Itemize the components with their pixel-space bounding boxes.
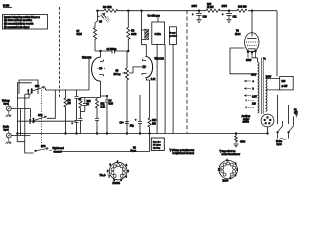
mains double-pole switch (278, 124, 283, 135)
svg-text:ECC83: ECC83 (113, 183, 121, 185)
svg-text:Right-hand: Right-hand (53, 147, 65, 150)
svg-text:Radio: Radio (3, 127, 10, 129)
svg-text:(b) monaural pick-up records: (b) monaural pick-up records (4, 23, 34, 26)
voltage selector disc (261, 114, 274, 127)
grid return loop of V2 (230, 48, 256, 74)
screening dash-dot line (input section) (59, 7, 61, 97)
svg-text:input: input (4, 103, 9, 106)
wire jack1 to switch (11, 108, 30, 110)
coupling caps C7a C7b to earth (64, 90, 67, 134)
svg-text:speaker: speaker (169, 35, 177, 38)
svg-text:SA3: SA3 (41, 145, 46, 148)
ground at jack 1 (6, 111, 12, 117)
svg-text:6.3V: 6.3V (252, 96, 257, 98)
switch linkage dotted line (41, 90, 43, 148)
anode resistor R8 (vertical zigzag) (127, 11, 130, 51)
svg-text:input: input (4, 129, 9, 132)
wire: switch to grid column (46, 57, 90, 90)
grid-leak resistor R7 (vertical zigzag) (93, 16, 97, 41)
svg-text:4700: 4700 (240, 142, 246, 144)
wire: V1b anode up to output transformer (142, 45, 147, 57)
svg-text:R10: R10 (87, 101, 92, 103)
svg-text:in right-hand channel: in right-hand channel (173, 152, 195, 155)
svg-text:(c) monaural radio signal: (c) monaural radio signal (4, 26, 30, 29)
svg-text:R13: R13 (152, 120, 157, 122)
heater tap arrows on T2 (245, 80, 252, 97)
svg-text:Inputs balancing switch SA pos: Inputs balancing switch SA pos.: (4, 16, 40, 19)
svg-text:SA1: SA1 (35, 85, 40, 88)
electrolytic C9 on pot column (125, 122, 129, 124)
svg-text:R16 1k0: R16 1k0 (238, 7, 247, 9)
svg-text:Auxiliary: Auxiliary (242, 115, 252, 118)
svg-text:*) taps wired on: *) taps wired on (220, 150, 237, 153)
svg-text:C6 5600p: C6 5600p (107, 49, 118, 51)
wire: rail to V2 top (251, 11, 253, 33)
wire: R7 to V1a top (95, 40, 101, 51)
legend box: input balancing switch SA (3, 15, 48, 30)
smoothing capacitor C5 (97, 11, 99, 18)
valve base diagram ECC83 (109, 162, 127, 180)
svg-text:0.1M: 0.1M (77, 34, 82, 36)
balance switch section SA1 (32, 87, 45, 91)
balance switch section SA2 (34, 116, 47, 120)
mains tap arrows (245, 100, 254, 102)
dropper resistor R16 (horizontal zigzag on rail) (237, 9, 247, 12)
dropper resistor 4700 with ground (234, 134, 239, 147)
decoupling capacitor column x107 (101, 96, 110, 134)
wire: V1a anode to C6 (101, 51, 113, 57)
svg-text:EL84: EL84 (223, 180, 229, 183)
resistor R6 150k (HT dropper, horizontal zigzag) (104, 9, 118, 12)
heater supply line (50, 134, 150, 152)
svg-text:HT drive: HT drive (153, 143, 162, 146)
svg-text:winding: winding (153, 148, 161, 150)
svg-text:B4I3: B4I3 (3, 4, 10, 8)
svg-text:SA2: SA2 (38, 114, 43, 117)
impedance selector box 4-15 ohm (152, 22, 165, 44)
svg-text:1k 5W: 1k 5W (207, 7, 214, 9)
svg-text:c: c (30, 123, 31, 125)
wire: rail corner down right side (276, 11, 278, 77)
mains input (278, 117, 294, 139)
svg-text:1M log: 1M log (114, 74, 122, 76)
svg-text:380V: 380V (251, 75, 257, 77)
svg-text:0.05: 0.05 (109, 104, 114, 106)
svg-text:On with gap: On with gap (148, 15, 161, 18)
svg-text:R6 150k: R6 150k (103, 7, 112, 9)
electrolytic C10 with ground (196, 11, 202, 16)
svg-text:Pick-up: Pick-up (2, 101, 10, 103)
svg-text:100k: 100k (131, 34, 137, 36)
wire jack2 (11, 135, 30, 137)
svg-text:switch: switch (243, 121, 250, 124)
electrolytic C11 with ground (226, 11, 232, 16)
valve base diagram EL84 (219, 160, 237, 178)
cap at x80 lower (79, 112, 83, 134)
dropper resistor R15 (horizontal zigzag on rail) (206, 9, 223, 12)
svg-text:Mains: Mains (276, 141, 283, 143)
svg-text:285V: 285V (192, 6, 198, 8)
channel divider dashed line (186, 10, 188, 134)
svg-text:C10: C10 (203, 17, 208, 19)
triode V1b (half ECC83) (146, 56, 153, 77)
output transformer T2 (252, 58, 258, 62)
loudspeaker box 3 watt (169, 27, 176, 45)
svg-text:270V: 270V (222, 6, 228, 8)
svg-text:EL84: EL84 (235, 34, 241, 36)
loudspeaker load box (280, 76, 294, 90)
triode V1a (half ECC83) (92, 57, 101, 81)
cathode resistor column below V1a (96, 98, 99, 119)
svg-text:input: input (277, 143, 282, 146)
junction dots on rails (97, 10, 99, 12)
cathode network of V1a: R10 with bypass C8 (79, 81, 101, 112)
svg-text:C9=: C9= (120, 123, 125, 125)
mains transformer T3 (258, 98, 260, 113)
svg-text:V1a,b: V1a,b (100, 175, 107, 177)
feedback loop rectangle (19, 80, 38, 94)
coupling capacitor C6 (112, 49, 128, 54)
ground at jack 2 (6, 138, 12, 144)
volume potentiometer R9 1M log (125, 51, 128, 134)
svg-text:c: c (28, 93, 29, 95)
svg-text:250V: 250V (246, 60, 252, 62)
svg-text:*) Volume potentiometer: *) Volume potentiometer (170, 149, 195, 152)
svg-text:5 pcs: 5 pcs (131, 150, 137, 152)
cathode resistor R13 (146, 78, 151, 134)
svg-text:(a) stereo pick-up operation: (a) stereo pick-up operation (4, 19, 33, 22)
svg-text:mains: mains (243, 119, 250, 121)
electrolytic C12 (138, 95, 142, 134)
wire: boxes down to bottom rail (157, 44, 173, 133)
input wiring mesh (17, 83, 31, 142)
switch SA3 (right-hand channel) (25, 142, 34, 153)
svg-text:IC: IC (218, 169, 221, 171)
svg-text:Ω 5W: Ω 5W (282, 85, 289, 88)
svg-text:mains transformer: mains transformer (222, 153, 241, 156)
svg-text:25µ: 25µ (130, 126, 135, 128)
HT supply rail (97, 10, 277, 12)
svg-text:R15: R15 (207, 4, 212, 6)
svg-text:1M: 1M (68, 103, 71, 105)
annotation box: heater note (151, 138, 164, 150)
bottom earth rail (17, 133, 267, 135)
wire: pot wiper to V1b grid (129, 67, 143, 73)
svg-text:3 watt: 3 watt (170, 32, 176, 35)
svg-text:from the: from the (153, 140, 161, 143)
svg-text:4-15Ω: 4-15Ω (155, 33, 162, 36)
